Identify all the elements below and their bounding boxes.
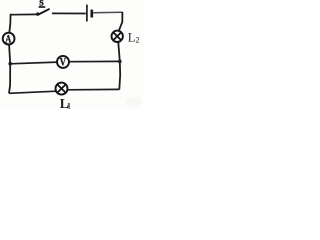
voltmeter V [57, 56, 69, 68]
wire: right rail (lamp L2 to middle junction) [118, 43, 120, 62]
lamp L2 [112, 31, 123, 42]
switch S blade [38, 9, 49, 15]
switch S contact dot [36, 12, 39, 15]
wire: middle right (voltmeter to junction) [69, 60, 120, 62]
svg-text:V: V [60, 57, 67, 69]
battery long plate [86, 5, 88, 22]
wire: switch to battery [52, 12, 86, 14]
switch S underline [39, 6, 46, 8]
wire: battery to top-right corner [93, 11, 122, 14]
wire: left rail upper (corner down to ammeter) [9, 14, 10, 33]
svg-text:1: 1 [67, 101, 71, 110]
lamp L1 [56, 83, 68, 95]
wire: top-left horizontal (corner to switch) [11, 13, 38, 15]
background [0, 0, 144, 110]
scan smudge (faint) [126, 97, 142, 107]
svg-text:A: A [5, 33, 12, 45]
wire: middle left (junction to voltmeter) [10, 62, 57, 64]
wire: left rail (ammeter to middle junction) [9, 45, 10, 64]
junction dot left-middle [8, 62, 12, 66]
junction dot right-middle [118, 60, 122, 64]
wire: right rail upper (corner down to lamp L2) [119, 12, 123, 31]
wire: bottom right (lamp L1 to corner) [68, 88, 120, 90]
wire: right rail (middle junction to bottom corner) [118, 61, 121, 89]
wire: bottom left (corner to lamp L1) [9, 91, 56, 93]
battery short plate [90, 10, 93, 18]
wire: left rail (middle junction to bottom corner) [9, 64, 10, 93]
ammeter A [3, 33, 15, 45]
